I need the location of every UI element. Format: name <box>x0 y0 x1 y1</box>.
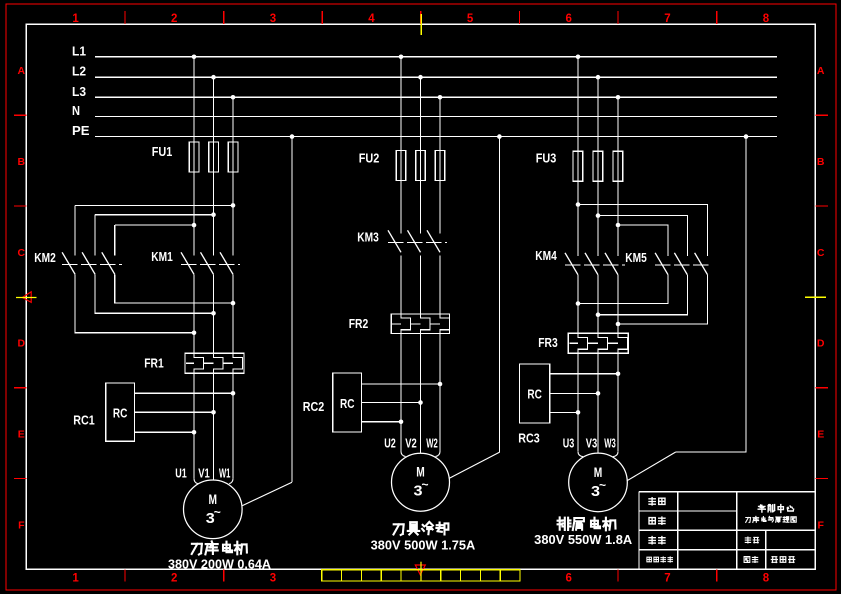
svg-text:FR1: FR1 <box>144 357 164 371</box>
svg-text:7: 7 <box>664 573 670 585</box>
title block label row3 <box>649 537 665 544</box>
svg-text:RC1: RC1 <box>73 414 95 428</box>
right centering mark <box>805 296 826 298</box>
svg-text:L2: L2 <box>72 65 86 79</box>
svg-text:U2: U2 <box>384 436 396 451</box>
svg-text:C: C <box>817 247 825 259</box>
title block label row1 <box>649 498 665 505</box>
svg-text:~: ~ <box>214 505 221 519</box>
junction L2-FU3 tap <box>596 75 601 80</box>
svg-text:380V 500W 1.75A: 380V 500W 1.75A <box>371 538 476 552</box>
power rail PE <box>72 124 777 138</box>
svg-text:KM5: KM5 <box>625 251 647 265</box>
power rail L3 <box>72 85 777 99</box>
svg-text:W1: W1 <box>219 465 231 480</box>
svg-text:W3: W3 <box>604 436 616 451</box>
svg-text:PE: PE <box>72 124 90 138</box>
svg-text:C: C <box>18 247 26 259</box>
svg-text:FU2: FU2 <box>359 152 380 166</box>
top centering mark <box>420 14 422 35</box>
bottom yellow scale bar <box>322 570 520 581</box>
svg-text:7: 7 <box>664 13 670 25</box>
thermal overload relay FR1 <box>144 353 244 373</box>
svg-text:1: 1 <box>72 13 79 25</box>
svg-text:6: 6 <box>565 13 571 25</box>
motor M1 name label <box>192 541 247 554</box>
junction KM2 feed L3 <box>231 203 236 208</box>
svg-text:2: 2 <box>171 573 177 585</box>
frame row letters A-F <box>18 65 825 531</box>
fuse group FU2 <box>359 151 445 181</box>
RC suppressor RC1 <box>73 383 235 441</box>
wire KM1 outputs to FR1 <box>194 274 233 353</box>
junction L1-FU3 tap <box>576 55 581 60</box>
title block drawing title line2 <box>746 516 797 522</box>
svg-text:B: B <box>817 156 825 168</box>
motor M2 ground wire from PE <box>449 134 502 478</box>
junction KM5 return U <box>576 301 581 306</box>
wire KM4 outputs to FR3 <box>578 275 618 334</box>
junction L1-FU1 tap <box>192 55 197 60</box>
svg-text:FU3: FU3 <box>536 152 557 166</box>
svg-text:L1: L1 <box>72 44 86 58</box>
svg-text:5: 5 <box>467 13 474 25</box>
motor M3 name label <box>558 517 616 530</box>
bottom centering mark triangle <box>415 562 425 581</box>
junction KM2 return V <box>211 311 216 316</box>
wire KM5 feed loop top <box>578 205 708 257</box>
svg-text:8: 8 <box>763 573 770 585</box>
junction L2-FU2 tap <box>418 75 423 80</box>
junction L3-FU2 tap <box>438 95 443 100</box>
junction KM5 return W <box>616 322 621 327</box>
wire KM3 outputs to FR2 <box>401 255 440 314</box>
svg-text:4: 4 <box>368 13 375 25</box>
fuse group FU1 <box>152 142 238 172</box>
svg-text:B: B <box>18 156 26 168</box>
svg-text:E: E <box>817 429 824 441</box>
junction L3-FU3 tap <box>616 95 621 100</box>
svg-text:2: 2 <box>171 13 177 25</box>
power rail L1 <box>72 44 777 58</box>
junction L2-FU1 tap <box>211 75 216 80</box>
svg-text:~: ~ <box>599 478 606 492</box>
contactor KM5 <box>625 251 712 275</box>
RC suppressor RC3 <box>518 364 620 446</box>
svg-text:E: E <box>18 429 25 441</box>
svg-text:D: D <box>817 338 825 350</box>
wire FU3 feeders <box>578 57 618 256</box>
wire KM2 feed loop top <box>75 205 233 255</box>
contactor KM1 <box>151 250 240 274</box>
svg-text:380V 550W 1.8A: 380V 550W 1.8A <box>534 533 632 547</box>
junction L1-FU2 tap <box>399 55 404 60</box>
svg-text:KM2: KM2 <box>34 251 56 265</box>
svg-text:V1: V1 <box>198 465 210 480</box>
contactor KM2 <box>34 251 122 274</box>
fuse group FU3 <box>536 151 623 181</box>
left centering mark <box>16 292 37 303</box>
wire FR3 to motor M3 <box>578 353 618 453</box>
svg-text:A: A <box>18 65 26 77</box>
power rail L2 <box>72 65 777 79</box>
svg-text:V3: V3 <box>586 436 598 451</box>
svg-text:8: 8 <box>763 13 770 25</box>
motor M1 3~ <box>175 465 242 538</box>
svg-text:3: 3 <box>270 573 276 585</box>
title block page label <box>771 557 794 563</box>
wire FR2 to motor M2 <box>401 334 440 454</box>
svg-text:RC3: RC3 <box>518 432 540 446</box>
title block date label <box>745 537 759 543</box>
wire KM2 outputs to motor wires <box>75 274 233 333</box>
svg-text:RC: RC <box>527 387 542 402</box>
junction KM5 feed L2 <box>596 213 601 218</box>
frame column numbers 1-8 <box>72 13 769 585</box>
power rail N <box>72 104 777 118</box>
junction KM5 feed L3 <box>616 223 621 228</box>
wire FU2 feeders <box>401 57 440 234</box>
svg-text:1: 1 <box>72 573 79 585</box>
thermal overload relay FR2 <box>349 314 450 334</box>
motor M2 name label <box>394 522 449 535</box>
junction KM2 return W <box>231 301 236 306</box>
wire FR1 to motor M1 <box>194 373 233 480</box>
svg-text:A: A <box>817 65 825 77</box>
wire KM5 outputs to motor wires <box>578 275 708 324</box>
svg-text:FR3: FR3 <box>538 336 558 350</box>
svg-text:RC: RC <box>340 396 355 411</box>
svg-text:U3: U3 <box>563 436 575 451</box>
svg-text:6: 6 <box>565 573 571 585</box>
title block label row2 <box>649 517 665 524</box>
svg-text:FU1: FU1 <box>152 145 173 159</box>
motor M3 3~ <box>563 436 628 512</box>
junction KM2 feed L2 <box>211 212 216 217</box>
wire FU1 feeders <box>194 57 233 256</box>
svg-text:V2: V2 <box>405 436 417 451</box>
junction L3-FU1 tap <box>231 95 236 100</box>
svg-text:KM3: KM3 <box>357 231 379 245</box>
svg-text:D: D <box>18 338 26 350</box>
svg-text:380V 200W 0.64A: 380V 200W 0.64A <box>168 558 271 572</box>
contactor KM3 <box>357 230 447 252</box>
svg-text:F: F <box>817 520 824 532</box>
svg-text:U1: U1 <box>175 465 187 480</box>
svg-text:L3: L3 <box>72 85 86 99</box>
RC suppressor RC2 <box>303 373 443 432</box>
junction KM2 feed L1 <box>192 223 197 228</box>
junction KM2 return U <box>192 331 197 336</box>
contactor KM4 <box>535 249 625 275</box>
svg-text:FR2: FR2 <box>349 317 369 331</box>
svg-text:KM1: KM1 <box>151 250 173 264</box>
motor M1 ground wire from PE <box>242 134 294 505</box>
motor M3 ground wire from PE <box>627 134 748 481</box>
svg-text:~: ~ <box>421 478 428 492</box>
thermal overload relay FR3 <box>538 333 628 353</box>
title block grid <box>639 492 815 570</box>
svg-text:N: N <box>72 104 80 118</box>
svg-text:W2: W2 <box>426 436 438 451</box>
svg-text:RC2: RC2 <box>303 400 325 414</box>
title block sheet number label <box>744 557 758 563</box>
svg-text:RC: RC <box>113 405 128 420</box>
title block drawing title line1 <box>758 505 793 513</box>
motor M2 3~ <box>384 436 449 512</box>
svg-text:F: F <box>18 520 25 532</box>
svg-text:KM4: KM4 <box>535 249 557 263</box>
svg-text:3: 3 <box>270 13 276 25</box>
title block label row4 <box>647 557 673 562</box>
junction KM5 return V <box>596 312 601 317</box>
junction KM5 feed L1 <box>576 202 581 207</box>
